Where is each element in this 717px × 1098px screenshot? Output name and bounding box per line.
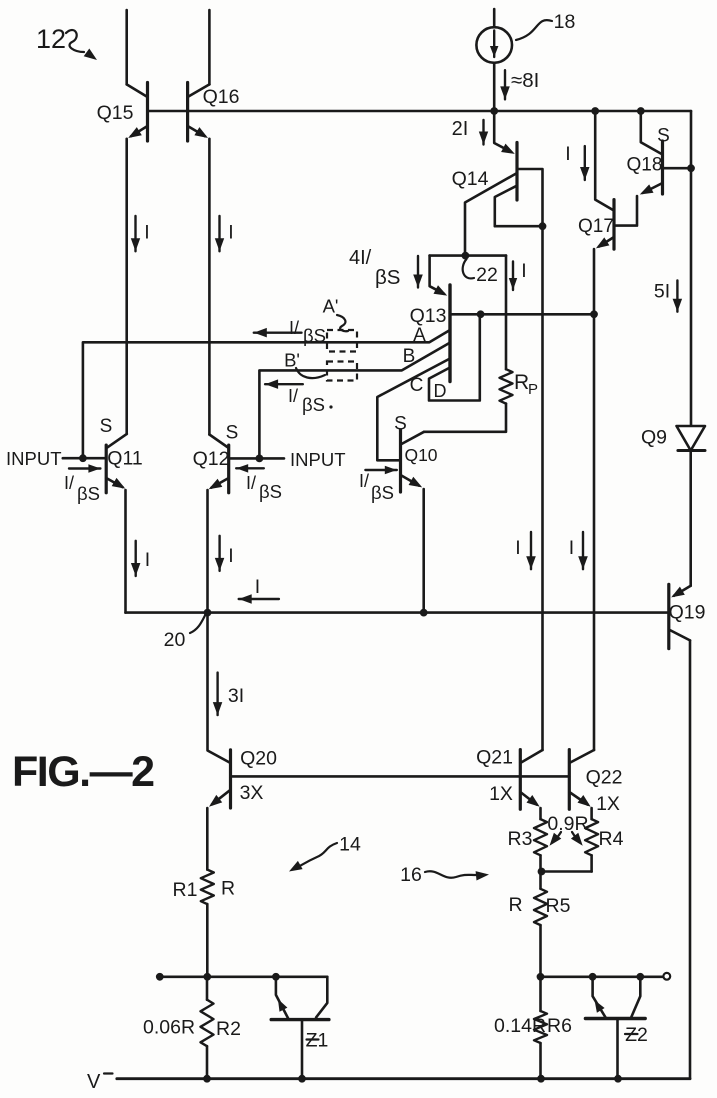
- svg-text:20: 20: [164, 629, 186, 651]
- svg-text:INPUT: INPUT: [6, 448, 62, 469]
- svg-text:R6: R6: [547, 1015, 572, 1037]
- svg-text:Q13: Q13: [410, 305, 447, 327]
- svg-text:I/: I/: [288, 386, 298, 406]
- svg-text:I: I: [565, 143, 570, 165]
- svg-text:FIG.—2: FIG.—2: [12, 748, 154, 796]
- svg-text:R5: R5: [546, 895, 571, 917]
- svg-text:Q22: Q22: [586, 767, 623, 789]
- svg-text:Q14: Q14: [452, 168, 489, 190]
- svg-text:R4: R4: [599, 828, 624, 850]
- svg-text:R: R: [514, 371, 529, 394]
- svg-text:I: I: [228, 545, 233, 567]
- svg-text:I/: I/: [289, 318, 299, 338]
- svg-text:I: I: [521, 260, 526, 282]
- svg-text:16: 16: [400, 864, 422, 886]
- svg-text:V: V: [87, 1071, 101, 1093]
- svg-text:B: B: [403, 346, 416, 367]
- svg-text:Q17: Q17: [578, 216, 614, 237]
- svg-text:I: I: [255, 576, 260, 598]
- svg-text:R: R: [508, 894, 522, 916]
- svg-text:Q20: Q20: [240, 748, 277, 770]
- svg-text:18: 18: [554, 11, 576, 33]
- svg-text:C: C: [410, 375, 424, 396]
- svg-text:Q9: Q9: [641, 427, 667, 449]
- svg-text:S: S: [100, 416, 113, 437]
- svg-text:S: S: [226, 423, 239, 444]
- svg-text:P: P: [528, 381, 538, 398]
- svg-text:A: A: [413, 325, 426, 346]
- svg-text:3I: 3I: [228, 685, 244, 707]
- svg-text:βS: βS: [77, 483, 100, 504]
- svg-text:R: R: [221, 878, 235, 900]
- svg-text:0.06R: 0.06R: [143, 1017, 195, 1039]
- svg-text:5I: 5I: [654, 281, 670, 303]
- svg-text:14: 14: [339, 834, 361, 856]
- svg-text:βS: βS: [375, 266, 400, 289]
- svg-text:R1: R1: [173, 879, 198, 901]
- svg-text:I/: I/: [64, 473, 74, 493]
- svg-text:I: I: [515, 537, 520, 559]
- svg-text:1X: 1X: [596, 793, 620, 815]
- svg-text:B': B': [284, 350, 300, 371]
- svg-text:Q11: Q11: [107, 448, 142, 470]
- svg-text:D: D: [434, 381, 447, 401]
- svg-text:I: I: [144, 222, 149, 244]
- svg-text:INPUT: INPUT: [290, 449, 346, 470]
- svg-text:βS: βS: [303, 325, 326, 346]
- svg-text:A': A': [323, 296, 339, 317]
- svg-text:I: I: [145, 549, 150, 571]
- svg-text:S: S: [657, 126, 670, 147]
- svg-text:βS: βS: [302, 394, 325, 415]
- svg-text:I: I: [228, 222, 233, 244]
- svg-text:0.14R: 0.14R: [494, 1015, 546, 1037]
- svg-text:Q18: Q18: [627, 155, 663, 176]
- svg-text:2I: 2I: [452, 118, 469, 140]
- svg-text:Q16: Q16: [203, 86, 240, 108]
- svg-text:0.9R: 0.9R: [547, 813, 588, 835]
- svg-text:βS: βS: [371, 482, 394, 503]
- svg-text:Q19: Q19: [669, 602, 706, 624]
- svg-text:Q10: Q10: [404, 445, 437, 465]
- svg-text:R3: R3: [508, 828, 533, 850]
- svg-text:22: 22: [476, 264, 498, 286]
- svg-text:12: 12: [36, 24, 66, 54]
- svg-text:Q15: Q15: [97, 102, 134, 124]
- svg-text:Q21: Q21: [476, 747, 513, 769]
- svg-text:I: I: [569, 537, 574, 559]
- svg-text:I/: I/: [359, 471, 369, 491]
- svg-text:1X: 1X: [489, 783, 513, 805]
- svg-text:S: S: [394, 414, 407, 435]
- svg-text:βS: βS: [259, 481, 282, 502]
- svg-text:I/: I/: [246, 473, 256, 493]
- svg-text:R2: R2: [216, 1018, 241, 1040]
- svg-text:≈8I: ≈8I: [511, 69, 539, 92]
- svg-text:3X: 3X: [240, 782, 264, 804]
- svg-text:4I/: 4I/: [349, 247, 372, 269]
- svg-text:Q12: Q12: [193, 448, 230, 470]
